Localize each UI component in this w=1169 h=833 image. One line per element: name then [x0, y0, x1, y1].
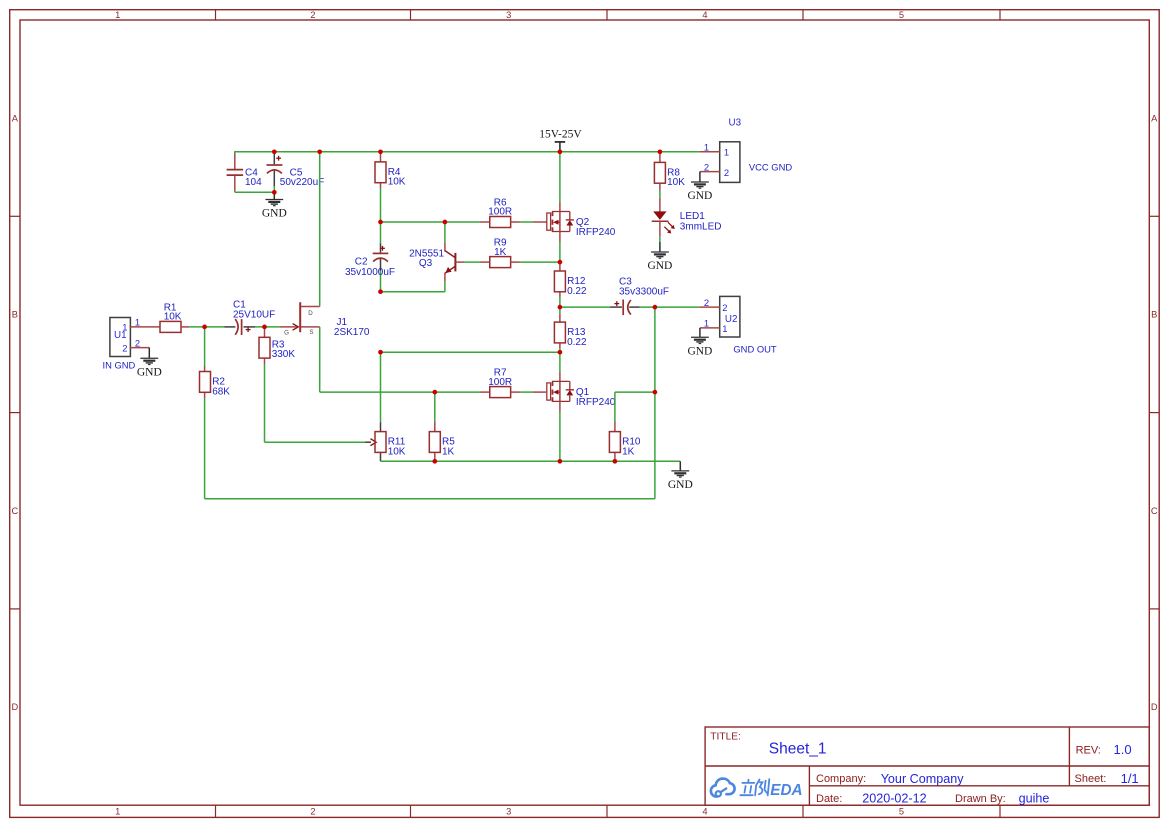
U2 pin 1 lead to ground — [700, 328, 720, 337]
svg-text:U3: U3 — [729, 118, 742, 129]
svg-text:GND: GND — [262, 208, 287, 220]
svg-text:35v3300uF: 35v3300uF — [619, 287, 669, 298]
EasyEDA logo — [711, 779, 803, 799]
svg-text:Sheet_1: Sheet_1 — [769, 741, 827, 758]
svg-text:68K: 68K — [212, 386, 230, 397]
wire long bottom return rail — [205, 498, 655, 500]
svg-text:EDA: EDA — [770, 782, 802, 799]
U3 pin 1 lead — [700, 151, 720, 153]
svg-text:1/1: 1/1 — [1121, 771, 1139, 786]
resistor R13 — [554, 322, 587, 348]
svg-text:2: 2 — [310, 807, 315, 817]
resistor R12 — [554, 271, 587, 297]
svg-text:2: 2 — [310, 10, 315, 20]
wire R2 column — [204, 327, 206, 499]
svg-text:15V-25V: 15V-25V — [539, 128, 582, 140]
wire J1 drain column — [319, 152, 321, 307]
wire C3 to U2 pin 2 — [640, 306, 700, 308]
svg-text:10K: 10K — [388, 177, 406, 188]
wire output node to C3 — [560, 306, 610, 308]
svg-text:B: B — [1151, 310, 1157, 320]
wire R3 column — [264, 327, 266, 442]
ground below U3 pin 2 — [687, 182, 712, 202]
capacitor C1 — [225, 300, 276, 335]
resistor R11 — [375, 432, 406, 458]
svg-text:TITLE:: TITLE: — [710, 732, 741, 743]
svg-text:5: 5 — [899, 10, 904, 20]
svg-text:100R: 100R — [488, 377, 512, 388]
wire Q2 drain — [559, 152, 561, 212]
svg-text:1: 1 — [722, 323, 727, 334]
wire R1 to C1 node — [181, 326, 225, 328]
svg-text:LED1: LED1 — [680, 211, 705, 222]
ground below U1 — [137, 358, 162, 378]
resistor R5 — [429, 432, 455, 458]
wire C1 to J1 gate node — [255, 326, 280, 328]
power flag 15V-25V — [539, 128, 582, 152]
wire R6 to Q2 gate — [511, 221, 547, 223]
svg-text:2: 2 — [135, 337, 140, 348]
transistor Q3 2N5551 — [409, 222, 464, 292]
arrow into R11 — [371, 439, 377, 446]
wire node C2-top to Q3 collector to R6 — [381, 221, 490, 223]
resistor R7 — [488, 367, 512, 397]
ruler column numbers bottom — [115, 807, 904, 817]
U2 pin 2 lead — [700, 306, 720, 308]
svg-text:25V10UF: 25V10UF — [233, 309, 275, 320]
svg-text:GND: GND — [137, 367, 162, 379]
svg-text:IRFP240: IRFP240 — [576, 227, 616, 238]
svg-text:1: 1 — [704, 318, 709, 329]
svg-text:1: 1 — [135, 317, 140, 328]
wire R8 leads — [659, 152, 661, 198]
svg-text:VCC GND: VCC GND — [749, 162, 792, 173]
svg-text:Drawn By:: Drawn By: — [955, 793, 1006, 805]
svg-text:IRFP240: IRFP240 — [576, 397, 616, 408]
ground at bottom rail — [668, 461, 693, 491]
title block texts — [710, 732, 1138, 806]
capacitor C5 — [267, 152, 325, 193]
ground below C5 — [262, 192, 287, 219]
svg-text:1: 1 — [115, 10, 120, 20]
resistor R1 — [160, 302, 182, 332]
svg-text:1.0: 1.0 — [1114, 742, 1132, 757]
svg-text:A: A — [12, 113, 19, 123]
ruler row letters right — [1151, 113, 1158, 712]
svg-text:0.22: 0.22 — [567, 337, 587, 348]
svg-text:50v220uF: 50v220uF — [280, 177, 324, 188]
connector U1 — [103, 317, 141, 371]
ground below U2 pin 1 — [687, 337, 712, 357]
svg-text:100R: 100R — [488, 207, 512, 218]
title block frame — [705, 727, 1149, 805]
resistor R10 — [609, 432, 640, 458]
U1 pin 1 lead — [130, 326, 160, 328]
wire R13 leads — [559, 307, 561, 352]
svg-text:2: 2 — [722, 302, 727, 313]
resistor R4 — [375, 162, 406, 188]
svg-text:Q3: Q3 — [419, 258, 433, 269]
wire Q2 source — [559, 232, 561, 263]
svg-text:4: 4 — [702, 10, 707, 20]
ground below LED — [647, 252, 672, 272]
transistor Q1 IRFP240 — [547, 381, 616, 408]
svg-text:GND: GND — [687, 346, 712, 358]
U1 pin 2 lead to ground — [130, 348, 149, 359]
connector U3 — [704, 118, 792, 183]
svg-text:C: C — [1151, 506, 1158, 516]
svg-text:C: C — [11, 506, 18, 516]
wire R3 bottom to R11 wiper — [265, 441, 372, 443]
svg-text:guihe: guihe — [1019, 792, 1050, 806]
svg-text:1K: 1K — [622, 446, 635, 457]
svg-text:Company:: Company: — [816, 773, 866, 785]
svg-text:GND: GND — [687, 190, 712, 202]
svg-text:GND: GND — [668, 479, 693, 491]
svg-text:3: 3 — [506, 807, 511, 817]
resistor R9 — [490, 237, 511, 267]
wire R4 leads — [380, 152, 382, 222]
svg-text:D: D — [308, 310, 313, 317]
capacitor C3 — [610, 300, 640, 316]
connector U2 — [704, 296, 777, 354]
svg-text:2SK170: 2SK170 — [334, 327, 370, 338]
ruler column numbers top — [115, 10, 904, 20]
wire R12 leads — [559, 262, 561, 307]
svg-text:G: G — [284, 329, 289, 336]
ruler row letters left — [11, 113, 18, 712]
wire Q1 source — [559, 401, 561, 461]
U3 pin 2 lead to ground — [700, 172, 720, 182]
svg-text:2: 2 — [704, 161, 709, 172]
svg-text:330K: 330K — [272, 349, 296, 360]
svg-text:C2: C2 — [355, 256, 368, 267]
capacitor C4 — [227, 154, 263, 191]
svg-text:10K: 10K — [667, 177, 685, 188]
svg-text:D: D — [11, 702, 18, 712]
svg-text:GND OUT: GND OUT — [733, 344, 777, 355]
wire J1 source column — [320, 327, 435, 392]
wire R5 column — [434, 392, 436, 461]
resistor R6 — [488, 197, 512, 227]
svg-text:1: 1 — [115, 807, 120, 817]
svg-text:D: D — [1151, 702, 1158, 712]
wire Q1 drain — [559, 352, 561, 381]
wire Q3 emitter row to C2 bottom — [381, 291, 445, 293]
svg-text:Your Company: Your Company — [881, 772, 965, 786]
svg-text:Sheet:: Sheet: — [1075, 773, 1107, 785]
svg-text:2: 2 — [122, 342, 127, 353]
wire C4 branch left — [235, 151, 274, 192]
svg-text:3mmLED: 3mmLED — [680, 222, 722, 233]
svg-text:4: 4 — [702, 807, 707, 817]
LED1 3mmLED — [652, 198, 722, 237]
svg-text:2: 2 — [724, 167, 729, 178]
wire R7 to Q1 gate — [511, 391, 547, 393]
junction dots — [202, 149, 662, 463]
svg-text:10K: 10K — [388, 446, 406, 457]
label C3 designator and value — [619, 277, 669, 298]
svg-text:1: 1 — [704, 142, 709, 153]
svg-text:3: 3 — [506, 10, 511, 20]
svg-text:1: 1 — [724, 147, 729, 158]
resistor R3 — [259, 337, 295, 360]
resistor R8 — [654, 162, 685, 188]
wire R11 column — [380, 352, 382, 461]
wire R9 to Q2 source node — [511, 261, 560, 263]
svg-text:IN GND: IN GND — [103, 360, 136, 371]
wire long vertical C3 column — [654, 307, 656, 499]
svg-text:35v1000uF: 35v1000uF — [345, 267, 395, 278]
wire Q3 base to R9 — [464, 261, 489, 263]
wire top power rail — [235, 151, 700, 153]
svg-text:A: A — [1151, 113, 1158, 123]
resistor R2 — [200, 372, 231, 398]
svg-text:B: B — [12, 310, 18, 320]
svg-text:10K: 10K — [164, 312, 182, 323]
svg-text:1: 1 — [122, 322, 127, 333]
svg-text:REV:: REV: — [1076, 745, 1101, 757]
wire bottom source rail — [381, 460, 681, 462]
svg-text:1K: 1K — [494, 247, 507, 258]
JFET J1 2SK170 — [280, 302, 370, 338]
wire R10 column — [615, 392, 655, 461]
svg-text:S: S — [309, 329, 313, 336]
transistor Q2 IRFP240 — [547, 212, 616, 239]
svg-text:1K: 1K — [442, 446, 455, 457]
wire gate row to R7 — [435, 391, 489, 393]
wire sense row R13-bottom to C2 column — [381, 351, 560, 353]
wire LED to ground — [659, 237, 661, 252]
svg-text:2020-02-12: 2020-02-12 — [862, 792, 926, 806]
svg-text:0.22: 0.22 — [567, 286, 587, 297]
capacitor C2 — [345, 222, 395, 292]
svg-text:2: 2 — [704, 297, 709, 308]
svg-text:Date:: Date: — [816, 793, 842, 805]
svg-text:GND: GND — [647, 260, 672, 272]
svg-text:5: 5 — [899, 807, 904, 817]
svg-text:104: 104 — [245, 177, 262, 188]
